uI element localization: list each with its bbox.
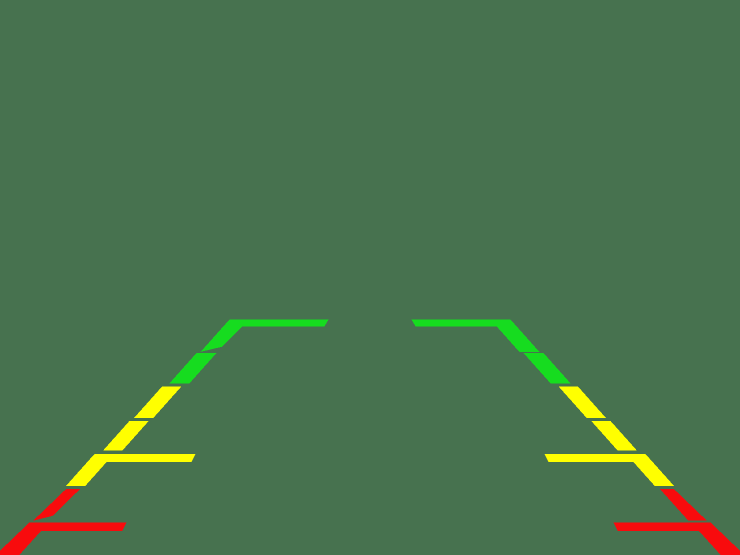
right red diag dash 1 [660,489,707,521]
right yellow tick [545,454,653,462]
left green diag dash B [170,353,217,383]
right red diag dash 2 [691,523,740,555]
left red tick [21,523,127,531]
right red tick [614,523,720,531]
left green bar [230,320,329,327]
right green diag dash B [523,353,570,383]
left yellow tick [87,454,195,462]
left yellow diag dash 2 [103,421,149,451]
left yellow diag dash 1 [134,387,181,418]
left red diag dash 2 [0,523,49,555]
right green diag dash A [491,320,540,352]
left red diag dash 1 [33,489,80,521]
right green bar [411,320,510,327]
left green diag dash A [201,320,250,352]
right yellow diag dash 1 [559,387,606,418]
right yellow diag dash 2 [591,421,637,451]
right yellow diag dash 3 [626,454,674,486]
left yellow diag dash 3 [66,454,114,486]
